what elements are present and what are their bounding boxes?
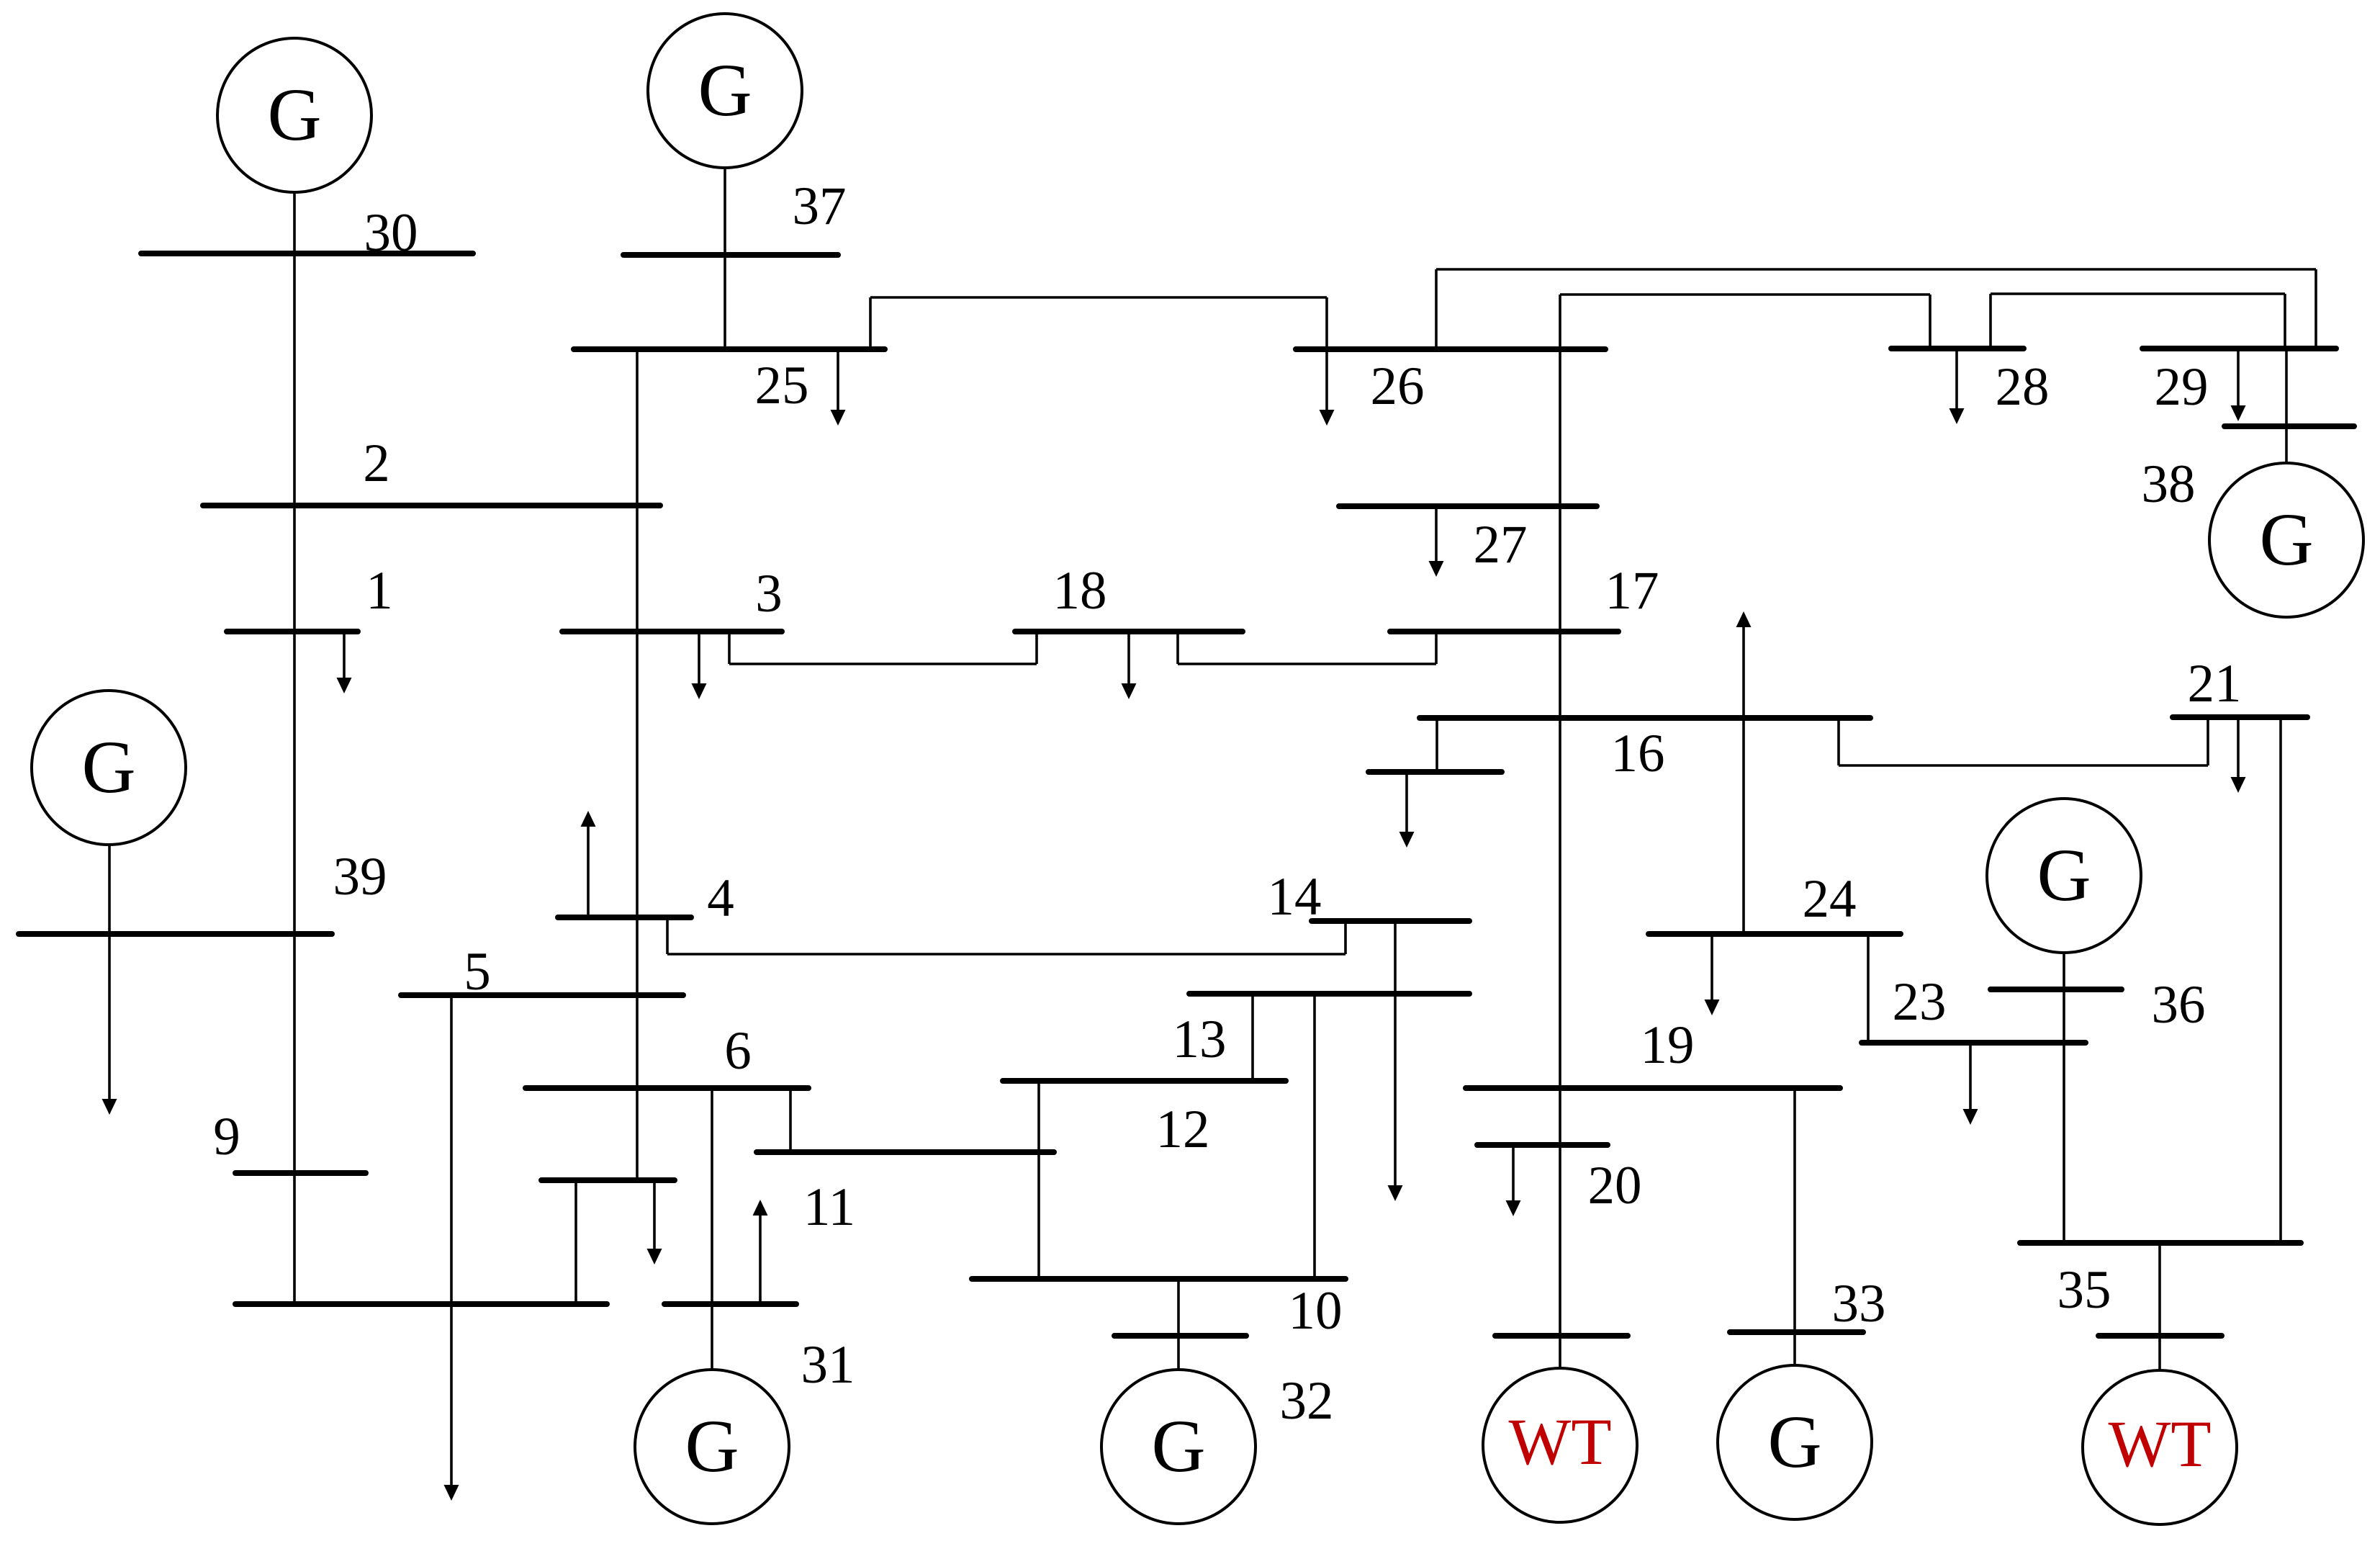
svg-text:G: G (685, 1405, 739, 1488)
svg-text:G: G (267, 73, 321, 156)
svg-text:1: 1 (366, 561, 393, 621)
svg-text:3: 3 (755, 564, 783, 624)
svg-text:24: 24 (1803, 869, 1857, 929)
svg-text:10: 10 (1289, 1281, 1343, 1341)
svg-text:16: 16 (1611, 724, 1665, 783)
svg-text:6: 6 (724, 1021, 752, 1081)
svg-text:36: 36 (2152, 975, 2206, 1035)
svg-text:39: 39 (333, 847, 387, 907)
svg-text:25: 25 (755, 356, 809, 415)
svg-text:4: 4 (707, 868, 734, 928)
svg-text:2: 2 (363, 433, 390, 493)
svg-text:5: 5 (464, 942, 491, 1002)
svg-text:38: 38 (2142, 454, 2196, 514)
svg-text:13: 13 (1173, 1010, 1227, 1069)
svg-text:G: G (1767, 1401, 1821, 1483)
svg-text:20: 20 (1588, 1156, 1642, 1216)
svg-text:30: 30 (364, 203, 418, 263)
svg-text:21: 21 (2188, 654, 2242, 714)
svg-text:33: 33 (1832, 1274, 1886, 1334)
svg-text:37: 37 (793, 176, 847, 236)
svg-text:WT: WT (2108, 1407, 2211, 1481)
svg-text:9: 9 (213, 1107, 240, 1167)
svg-text:27: 27 (1474, 515, 1528, 575)
svg-text:11: 11 (803, 1177, 855, 1237)
svg-text:32: 32 (1280, 1371, 1334, 1431)
svg-text:35: 35 (2057, 1260, 2111, 1320)
svg-text:31: 31 (801, 1335, 855, 1395)
svg-text:17: 17 (1605, 561, 1659, 621)
svg-text:12: 12 (1156, 1100, 1210, 1159)
svg-text:26: 26 (1371, 356, 1425, 416)
svg-text:G: G (1151, 1405, 1205, 1488)
svg-text:G: G (698, 49, 752, 132)
svg-text:19: 19 (1641, 1015, 1695, 1075)
svg-text:14: 14 (1268, 867, 1322, 927)
svg-text:G: G (81, 726, 135, 809)
svg-text:G: G (2037, 834, 2091, 917)
svg-text:28: 28 (1996, 357, 2050, 417)
svg-text:WT: WT (1508, 1405, 1611, 1478)
svg-text:G: G (2259, 498, 2313, 581)
svg-text:18: 18 (1053, 561, 1107, 621)
svg-text:29: 29 (2155, 357, 2209, 417)
svg-text:23: 23 (1893, 972, 1947, 1032)
